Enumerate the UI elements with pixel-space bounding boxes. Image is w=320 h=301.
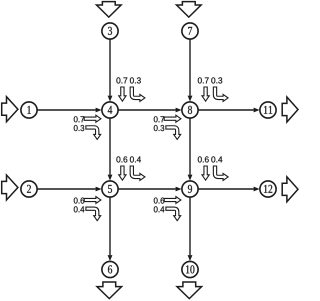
- node 5: [102, 181, 118, 197]
- inflow block arrow into node 1: [2, 97, 18, 122]
- edge from node 3 to node 4: [108, 31, 113, 102]
- turn-down hollow elbow arrow (0.4) at node 5: [86, 207, 101, 221]
- inflow block arrow into node 7: [177, 2, 202, 18]
- split ratio label 0.3 left of node 4: [74, 125, 84, 131]
- node 1: [21, 102, 37, 118]
- turn-right hollow elbow arrow (0.3) at node 8: [213, 87, 228, 101]
- split ratio label 0.4 left of node 9: [154, 206, 165, 212]
- split ratio label 0.4 above node 9: [211, 156, 222, 162]
- node 8: [182, 102, 198, 118]
- outflow block arrow from node 12: [282, 177, 298, 202]
- outflow block arrow from node 6: [97, 282, 122, 299]
- node 7: [182, 23, 198, 39]
- straight-through hollow arrow (0.7) at node 4: [84, 115, 101, 122]
- outflow block arrow from node 10: [177, 282, 202, 299]
- node 10: [182, 261, 198, 277]
- node 6: [102, 261, 118, 277]
- edge from node 5 to node 9: [110, 187, 182, 192]
- turn-right hollow elbow arrow (0.4) at node 5: [130, 166, 145, 180]
- split ratio label 0.6 above node 5: [116, 156, 127, 162]
- node 12: [260, 181, 276, 197]
- split ratio label 0.7 left of node 4: [74, 116, 84, 122]
- split ratio label 0.3 left of node 8: [154, 125, 164, 131]
- split ratio label 0.4 above node 5: [130, 156, 141, 162]
- inflow block arrow into node 3: [97, 2, 122, 18]
- split ratio label 0.3 above node 4: [130, 77, 141, 83]
- turn-down hollow elbow arrow (0.3) at node 4: [86, 126, 101, 140]
- straight-through hollow arrow (0.7) at node 4: [119, 87, 126, 101]
- edge from node 7 to node 8: [188, 31, 193, 102]
- edge from node 1 to node 4: [29, 108, 102, 113]
- node 2: [21, 181, 37, 197]
- edge from node 9 to node 10: [188, 189, 193, 261]
- inflow block arrow into node 2: [2, 175, 18, 200]
- edge from node 8 to node 9: [188, 110, 193, 181]
- turn-right hollow elbow arrow (0.4) at node 9: [213, 166, 228, 180]
- split ratio label 0.6 left of node 9: [154, 198, 164, 204]
- split ratio label 0.3 above node 8: [211, 77, 222, 83]
- split ratio label 0.6 above node 9: [198, 156, 209, 162]
- turn-down hollow elbow arrow (0.4) at node 9: [166, 207, 181, 221]
- split ratio label 0.7 left of node 8: [154, 116, 164, 122]
- split ratio label 0.7 above node 4: [116, 77, 127, 83]
- node 3: [102, 23, 118, 39]
- node 4: [102, 102, 118, 118]
- split ratio label 0.7 above node 8: [198, 77, 209, 83]
- straight-through hollow arrow (0.6) at node 5: [119, 166, 126, 180]
- straight-through hollow arrow (0.7) at node 8: [164, 115, 181, 122]
- node 11: [260, 102, 276, 118]
- edge from node 5 to node 6: [108, 189, 113, 261]
- edge from node 2 to node 5: [29, 187, 102, 192]
- edge from node 4 to node 8: [110, 108, 182, 113]
- outflow block arrow from node 11: [282, 97, 298, 122]
- edge from node 4 to node 5: [108, 110, 113, 181]
- turn-right hollow elbow arrow (0.3) at node 4: [130, 87, 145, 101]
- split ratio label 0.6 left of node 5: [74, 198, 84, 204]
- straight-through hollow arrow (0.6) at node 9: [202, 166, 209, 180]
- straight-through hollow arrow (0.6) at node 5: [84, 197, 101, 204]
- split ratio label 0.4 left of node 5: [74, 206, 85, 212]
- turn-down hollow elbow arrow (0.3) at node 8: [166, 126, 181, 140]
- edge from node 9 to node 12: [190, 187, 260, 192]
- straight-through hollow arrow (0.7) at node 8: [202, 87, 209, 101]
- edge from node 8 to node 11: [190, 108, 260, 113]
- node 9: [182, 181, 198, 197]
- straight-through hollow arrow (0.6) at node 9: [164, 197, 181, 204]
